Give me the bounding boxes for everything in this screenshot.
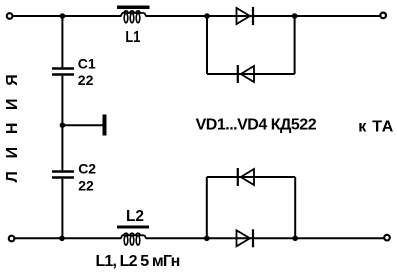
svg-text:И: И <box>4 98 21 110</box>
node junction diode block top-left <box>204 13 210 19</box>
wire top line <box>13 15 121 17</box>
wire between C1 and C2 <box>61 76 63 171</box>
wire mid tap <box>62 124 102 126</box>
inductor L1 core bar <box>117 6 150 10</box>
svg-text:Я: Я <box>4 74 21 86</box>
inductor L2 winding <box>121 233 147 245</box>
wire diode block bottom: right vertical <box>294 177 296 238</box>
terminal X1 top-left <box>7 13 13 19</box>
wire bottom line <box>15 237 121 239</box>
svg-text:L2: L2 <box>126 208 144 225</box>
inductor L2 core bar <box>117 226 149 229</box>
svg-text:к ТА: к ТА <box>358 119 393 136</box>
terminal X4 bottom-right <box>384 235 390 241</box>
capacitor C2 <box>52 170 74 172</box>
svg-text:C1: C1 <box>78 56 96 72</box>
wire below C2 <box>61 179 63 239</box>
node junction diode block bottom-right <box>292 236 298 242</box>
node junction diode block top-right <box>292 13 298 19</box>
node junction bottom-left <box>59 236 65 242</box>
node junction top-left (x=62.5) <box>60 13 66 19</box>
diode VD4 (bottom line, pointing right) <box>237 229 254 247</box>
inductor L1 winding <box>121 11 147 23</box>
svg-text:L1: L1 <box>125 29 140 46</box>
wire diode block top: right vertical <box>294 16 296 74</box>
capacitor C1 <box>52 67 74 69</box>
ground electrode bar <box>103 115 107 136</box>
svg-text:Н: Н <box>4 123 21 135</box>
diode VD2 (top block lower branch, pointing left) <box>238 65 254 83</box>
svg-text:22: 22 <box>78 177 94 193</box>
wire diode block bottom: upper branch <box>207 176 295 178</box>
wire diode block top: lower branch <box>207 73 295 75</box>
diode VD1 (top line, pointing right) <box>237 7 254 25</box>
wire diode block top: left vertical <box>206 16 208 74</box>
svg-text:И: И <box>4 147 21 159</box>
node junction diode block bottom-left <box>204 236 210 242</box>
diode VD3 (bottom block upper branch, pointing left) <box>238 168 254 186</box>
wire left vertical branch <box>61 16 63 67</box>
svg-text:L1, L2 5 мГн: L1, L2 5 мГн <box>96 253 180 270</box>
svg-text:Л: Л <box>4 171 21 182</box>
wire diode block bottom: left vertical <box>206 177 208 238</box>
node junction mid tap <box>60 122 66 128</box>
terminal X3 bottom-left <box>9 236 15 242</box>
svg-text:VD1...VD4 КД522: VD1...VD4 КД522 <box>196 117 317 134</box>
terminal X2 top-right <box>380 13 386 19</box>
svg-text:22: 22 <box>78 72 94 88</box>
svg-text:C2: C2 <box>78 161 96 177</box>
